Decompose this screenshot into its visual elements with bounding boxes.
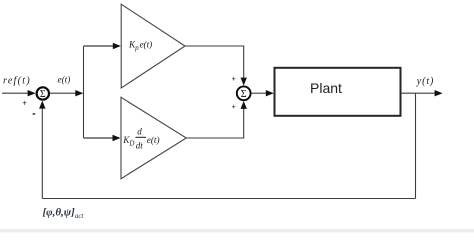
faint page band [0,229,474,233]
svg-text:dt: dt [136,140,144,150]
svg-text:Σ: Σ [241,89,247,100]
feedback wire bottom horizontal [42,198,415,200]
minus sign at summer 1 feedback [33,113,36,115]
label Kd d/dt e(t) [122,127,159,151]
wire branch to Kp block [84,45,114,47]
branch node vertical wire [83,46,85,138]
svg-text:ref(t): ref(t) [3,76,31,87]
svg-text:y(t): y(t) [416,76,434,87]
svg-text:+: + [22,98,27,107]
summing junction U2 [237,86,251,100]
svg-text:+: + [232,74,236,83]
derivative block Kd (triangle) [121,97,186,178]
wire e(t) summer1 to branch [50,92,77,94]
wire branch to Kd block [84,137,114,139]
feedback wire right vertical [415,93,417,198]
wire summer 2 to Plant [251,92,267,94]
wire input to summer 1 [2,92,29,94]
svg-text:Σ: Σ [40,89,46,100]
gain block Kp (triangle) [121,4,185,88]
summing junction U1 [37,87,49,99]
wire Kp output to summer 2 [185,46,244,78]
svg-text:e(t): e(t) [147,135,160,145]
Plant block [275,68,401,116]
svg-text:+: + [232,102,236,111]
wire Plant output [401,92,435,94]
svg-text:d: d [137,127,142,137]
feedback wire left vertical [41,108,43,199]
wire Kd output to summer 2 [186,108,243,138]
svg-text:e(t): e(t) [58,74,71,84]
svg-text:Plant: Plant [310,80,342,96]
